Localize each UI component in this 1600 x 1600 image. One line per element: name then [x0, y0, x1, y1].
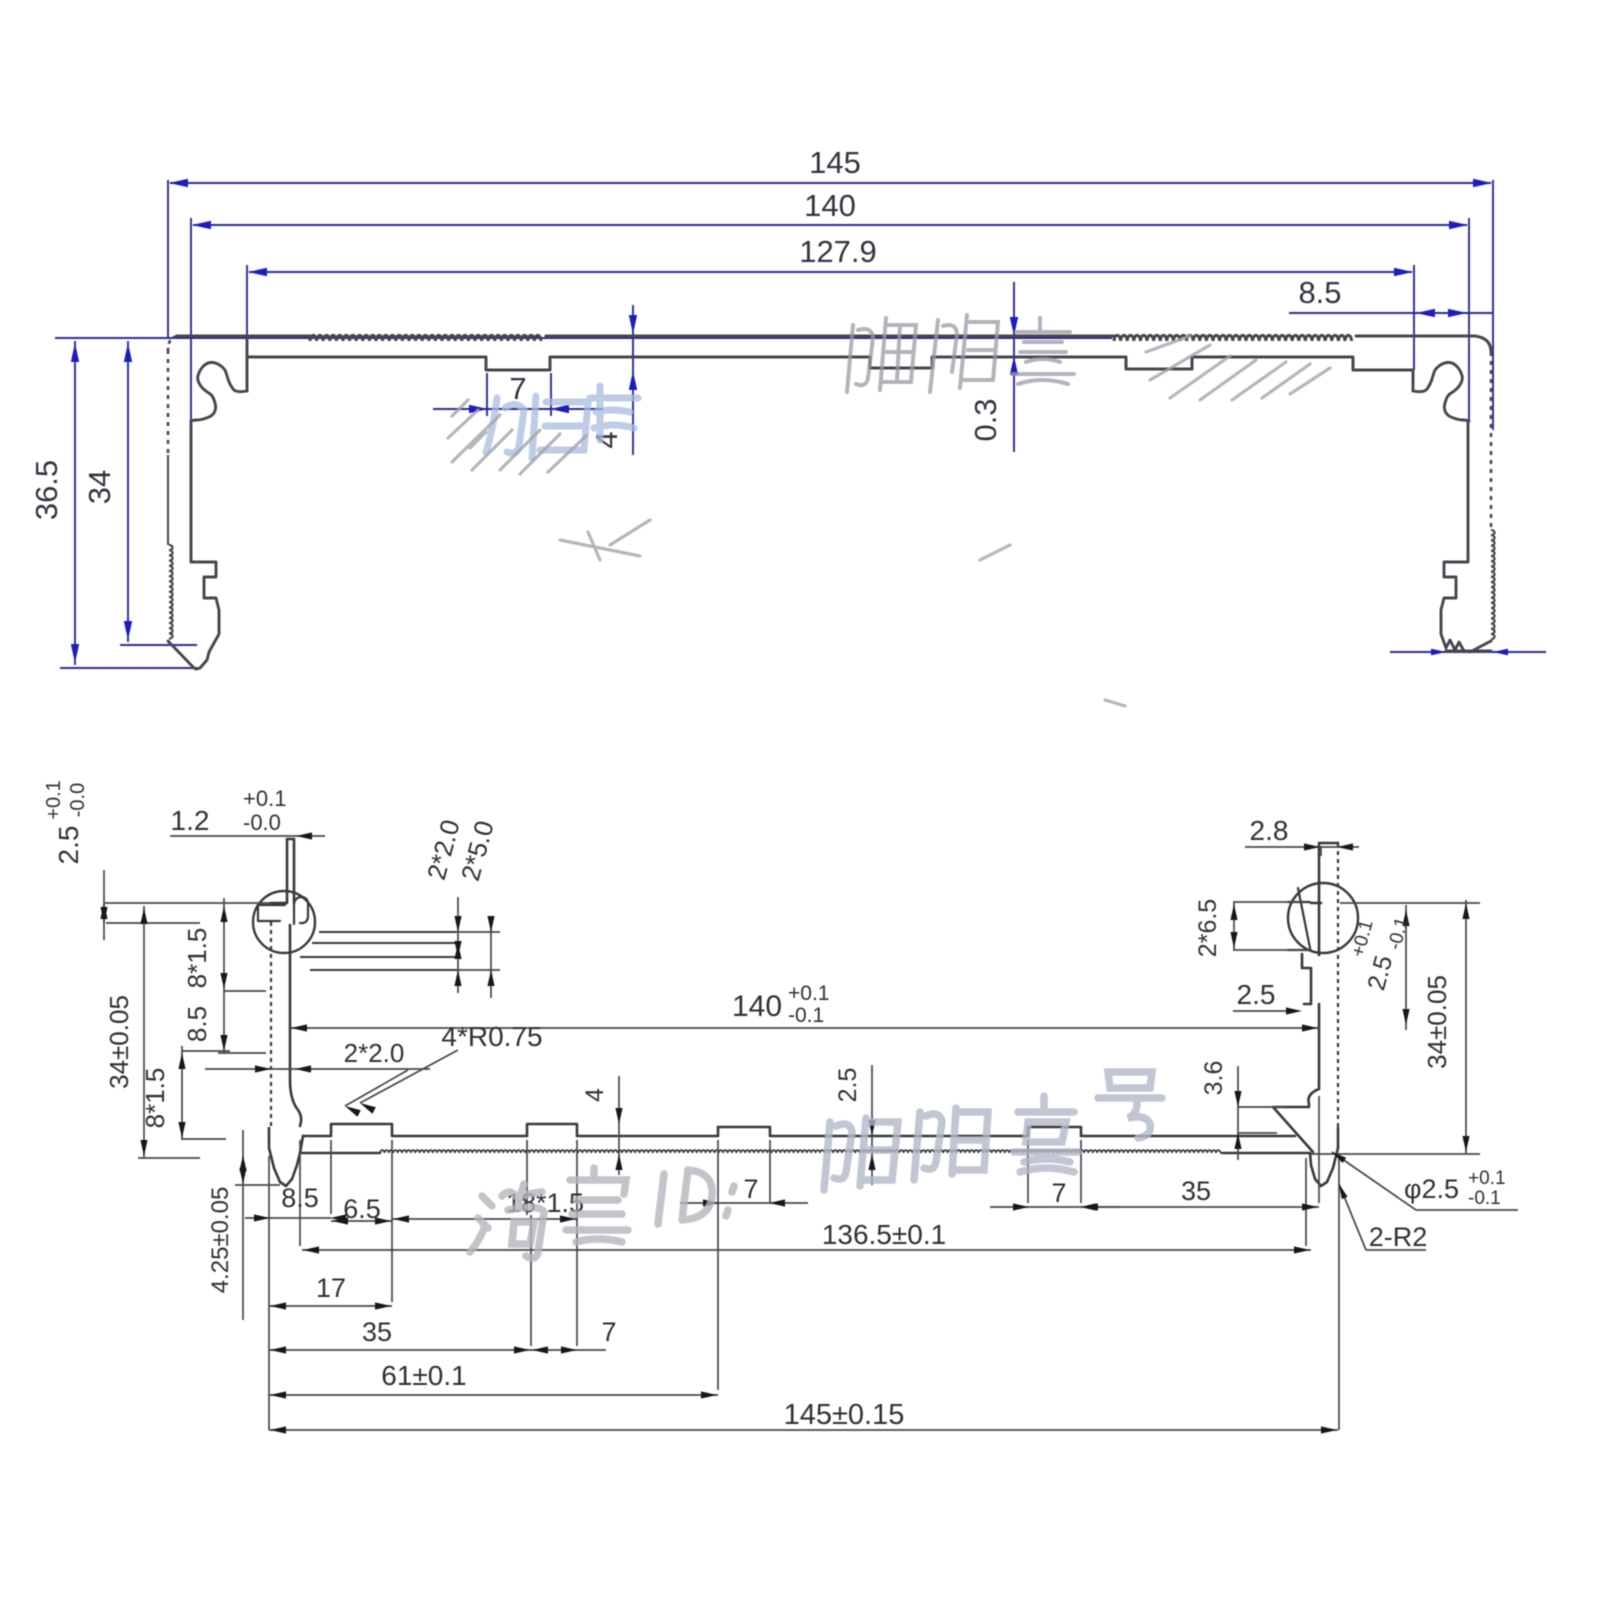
dim 2*6.5 — [1233, 901, 1302, 903]
left wall rim and lip — [271, 839, 294, 903]
dim 35 left — [269, 1349, 531, 1351]
dim 3.6 — [1237, 1066, 1239, 1160]
profile top surface — [177, 335, 310, 338]
svg-text:+0.1: +0.1 — [43, 780, 65, 819]
dim 7 rib3 — [680, 1202, 808, 1204]
dim 2.5 +0.1/-0.1 rotated — [1405, 905, 1407, 1030]
svg-text:7: 7 — [1051, 1178, 1066, 1208]
right wall inner profile and foot — [1441, 421, 1468, 651]
svg-text:7: 7 — [509, 371, 526, 406]
svg-text:140: 140 — [732, 990, 782, 1023]
dim 34 right — [1465, 900, 1467, 1154]
dim 2.5 mid vertical — [871, 1065, 873, 1185]
left ceiling edge stub — [246, 336, 249, 391]
svg-text:127.9: 127.9 — [799, 234, 877, 269]
svg-text:3.6: 3.6 — [1200, 1061, 1228, 1096]
svg-text:2.5: 2.5 — [1237, 979, 1276, 1010]
svg-text:34±0.05: 34±0.05 — [104, 995, 134, 1089]
dim 145 bottom — [269, 1429, 1338, 1431]
svg-text:7: 7 — [601, 1317, 616, 1347]
svg-text:4: 4 — [581, 1088, 609, 1102]
svg-text:0.3: 0.3 — [968, 398, 1003, 441]
dim 4 mid vertical — [618, 1076, 620, 1175]
right wall outer edge — [1337, 843, 1339, 1128]
right outer wall edge — [1490, 352, 1493, 530]
right wall inner face with hook — [1273, 883, 1319, 1152]
dim 36.5 — [55, 337, 110, 339]
svg-text:8*1.5: 8*1.5 — [182, 928, 212, 989]
svg-text:145: 145 — [809, 145, 861, 180]
dim 136.5 — [302, 1249, 1311, 1251]
right foot — [1310, 1128, 1338, 1186]
left S screw channel — [191, 362, 247, 421]
svg-text:61±0.1: 61±0.1 — [381, 1360, 466, 1391]
ext lines bottom — [268, 1156, 270, 1430]
svg-text:2*2.0: 2*2.0 — [344, 1038, 405, 1068]
dim 8.5 bottom — [245, 1217, 331, 1219]
dim 145 — [167, 180, 169, 338]
dim 8*1.5 lower — [181, 1046, 183, 1140]
svg-text:+0.1: +0.1 — [243, 786, 286, 811]
dim 2*2.0 horizontal — [205, 1068, 430, 1070]
dim 140 — [190, 218, 192, 421]
dim 1.2 — [170, 835, 325, 837]
svg-text:136.5±0.1: 136.5±0.1 — [822, 1219, 946, 1250]
svg-text:2-R2: 2-R2 — [1369, 1222, 1428, 1252]
svg-text:-0.1: -0.1 — [1468, 1188, 1501, 1209]
svg-text:140: 140 — [804, 188, 856, 223]
left foot — [269, 1128, 303, 1186]
dim 8.5 left — [223, 992, 225, 1053]
svg-text:35: 35 — [362, 1317, 392, 1347]
dim 61 — [269, 1394, 718, 1396]
dim 127.9 — [246, 265, 248, 336]
dim 4.25 — [242, 1130, 244, 1320]
dim 6.5 bottom — [331, 1220, 392, 1222]
dim 2.5 left — [103, 870, 105, 940]
svg-text:34: 34 — [82, 470, 117, 504]
small dim bottom right — [1390, 651, 1546, 653]
dim 18*1.5 bottom — [392, 1218, 577, 1220]
svg-text:4*R0.75: 4*R0.75 — [441, 1021, 542, 1052]
dim 2.8 — [1245, 846, 1359, 848]
svg-text:2*6.5: 2*6.5 — [1194, 899, 1222, 957]
dim 4 — [632, 305, 634, 455]
svg-text:4.25±0.05: 4.25±0.05 — [207, 1187, 234, 1294]
svg-text:+0.1: +0.1 — [1468, 1168, 1506, 1189]
left wall inner profile and foot — [191, 421, 219, 669]
left detail circle — [253, 891, 315, 953]
dim 2.5 right leader — [1233, 1010, 1296, 1012]
svg-text:1.2: 1.2 — [171, 805, 210, 836]
left circle detail strokes — [258, 897, 308, 924]
inner ceiling with ribs — [248, 357, 1413, 370]
svg-text:2.5: 2.5 — [834, 1068, 862, 1103]
svg-text:17: 17 — [316, 1273, 346, 1303]
right detail circle — [1288, 883, 1358, 953]
right circle detail strokes — [1288, 888, 1311, 950]
top-left corner arc — [168, 336, 177, 350]
svg-text:8.5: 8.5 — [182, 1006, 212, 1042]
dim 0.3 — [1013, 282, 1015, 452]
svg-text:2.5: 2.5 — [53, 826, 84, 865]
base bottom edge — [300, 1152, 380, 1155]
svg-text:7: 7 — [743, 1174, 758, 1204]
right wall lip — [1311, 843, 1338, 903]
dim 17 — [269, 1305, 392, 1307]
top-right corner arc — [1475, 336, 1491, 352]
svg-text:+0.1: +0.1 — [788, 982, 829, 1005]
left wall inner face — [290, 925, 301, 1126]
svg-text:6.5: 6.5 — [343, 1194, 381, 1224]
svg-text:4: 4 — [589, 431, 624, 448]
extension line top surface — [73, 337, 1112, 339]
svg-text:145±0.15: 145±0.15 — [784, 1399, 905, 1431]
svg-text:8*1.5: 8*1.5 — [140, 1068, 170, 1129]
left outer wall edge — [167, 350, 170, 455]
svg-text:8.5: 8.5 — [1298, 275, 1341, 310]
right ceiling edge stub — [1412, 370, 1415, 391]
svg-text:-0.1: -0.1 — [788, 1004, 824, 1027]
svg-text:35: 35 — [1181, 1176, 1211, 1206]
dim 140 bottom — [290, 1027, 1319, 1029]
dim 34 — [120, 644, 197, 646]
right S screw channel — [1413, 362, 1469, 421]
dim 8*1.5 upper — [223, 898, 225, 992]
svg-text:2.8: 2.8 — [1250, 815, 1289, 846]
svg-text:-0.0: -0.0 — [67, 783, 89, 817]
svg-text:36.5: 36.5 — [29, 460, 64, 520]
dim 2*2.0 / 2*5.0 — [457, 897, 459, 993]
dim 35 right — [1081, 1206, 1319, 1208]
dim 34 left — [143, 906, 145, 1158]
base top line with ribs — [303, 1124, 1295, 1136]
rails (cover grooves) — [300, 932, 457, 970]
svg-text:φ2.5: φ2.5 — [1404, 1174, 1459, 1204]
left wall outer edge — [270, 922, 272, 1128]
dim 7 — [486, 373, 488, 416]
svg-text:8.5: 8.5 — [281, 1183, 319, 1213]
dim 8.5 — [1289, 312, 1493, 314]
dim 7 lower — [531, 1349, 606, 1351]
dim 7 rib4 — [990, 1206, 1120, 1208]
svg-text:-0.0: -0.0 — [243, 810, 281, 835]
svg-text:34±0.05: 34±0.05 — [1422, 975, 1452, 1069]
